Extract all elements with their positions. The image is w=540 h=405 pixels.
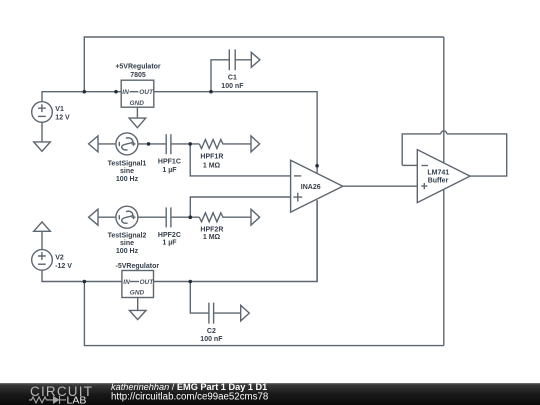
svg-text:100 nF: 100 nF	[200, 336, 223, 343]
svg-text:http://circuitlab.com/ce99ae52: http://circuitlab.com/ce99ae52cms78	[111, 392, 268, 403]
svg-text:HPF1R: HPF1R	[200, 154, 223, 161]
svg-text:HPF2C: HPF2C	[158, 232, 181, 239]
svg-text:INA26: INA26	[301, 184, 321, 191]
svg-text:sine: sine	[120, 240, 134, 247]
svg-text:1 MΩ: 1 MΩ	[203, 162, 221, 169]
svg-text:GND: GND	[130, 290, 145, 297]
svg-text:12 V: 12 V	[55, 115, 70, 122]
svg-text:-12 V: -12 V	[55, 263, 72, 270]
svg-text:1 MΩ: 1 MΩ	[203, 234, 221, 241]
svg-text:OUT: OUT	[139, 89, 154, 96]
svg-text:Buffer: Buffer	[428, 177, 449, 184]
svg-text:V2: V2	[55, 254, 64, 261]
svg-text:IN: IN	[122, 89, 129, 96]
svg-text:100 Hz: 100 Hz	[116, 248, 139, 255]
svg-text:1 µF: 1 µF	[162, 239, 177, 246]
svg-text:LAB: LAB	[67, 395, 87, 405]
svg-text:TestSignal1: TestSignal1	[108, 161, 147, 168]
svg-text:HPF2R: HPF2R	[200, 227, 223, 234]
svg-text:LM741: LM741	[427, 170, 449, 177]
svg-text:GND: GND	[130, 100, 145, 107]
svg-text:1 µF: 1 µF	[162, 167, 177, 174]
svg-text:V1: V1	[55, 106, 64, 113]
svg-text:100 nF: 100 nF	[221, 83, 244, 90]
svg-text:+5VRegulator: +5VRegulator	[115, 63, 161, 70]
svg-text:7805: 7805	[130, 72, 146, 79]
svg-text:C2: C2	[207, 328, 216, 335]
svg-text:HPF1C: HPF1C	[158, 159, 181, 166]
svg-text:IN: IN	[123, 279, 130, 286]
svg-text:sine: sine	[120, 168, 134, 175]
svg-text:C1: C1	[228, 74, 237, 81]
svg-text:OUT: OUT	[140, 279, 155, 286]
svg-text:100 Hz: 100 Hz	[116, 176, 139, 183]
svg-text:katherinehhan / EMG Part 1 Day: katherinehhan / EMG Part 1 Day 1 D1	[111, 382, 267, 392]
svg-text:-5VRegulator: -5VRegulator	[116, 263, 160, 270]
svg-text:TestSignal2: TestSignal2	[108, 232, 147, 239]
